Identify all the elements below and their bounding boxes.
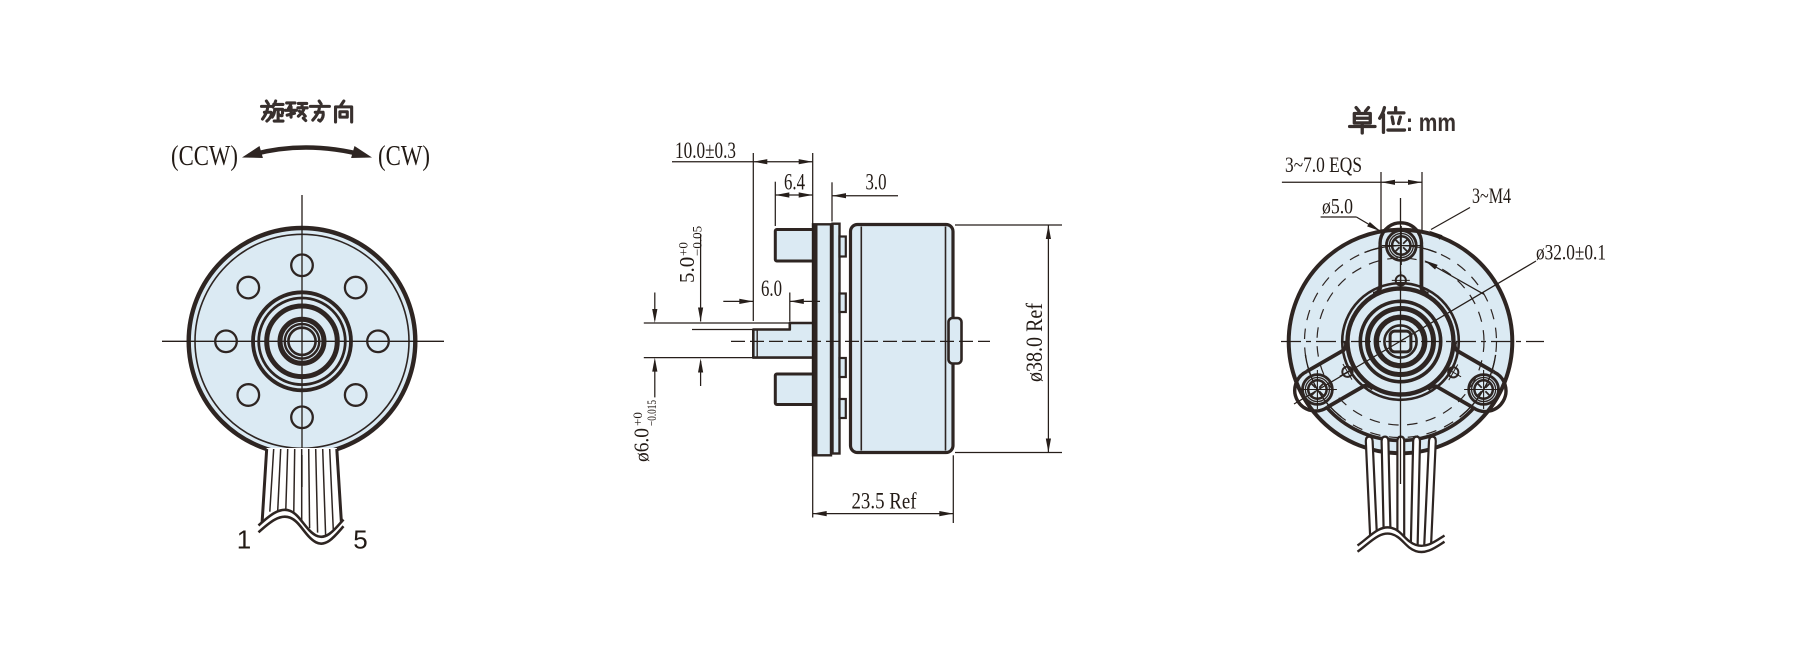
svg-text:6.4: 6.4 — [784, 170, 805, 195]
body front cap line — [860, 227, 862, 451]
washer at 330 deg — [1469, 375, 1499, 405]
side view horizontal centerline — [731, 340, 990, 342]
8 rivet holes — [367, 331, 389, 353]
washer at 210 deg — [1303, 375, 1333, 405]
hub rings — [1342, 283, 1459, 400]
svg-text:3~M4: 3~M4 — [1472, 183, 1511, 208]
svg-text:+0: +0 — [630, 412, 645, 426]
rear boss bump — [949, 318, 962, 364]
side view: top mounting post — [775, 230, 814, 262]
shaft tip chamfer line — [756, 331, 758, 357]
mounting bracket: 3 arms with keyhole lobes — [1373, 223, 1429, 294]
bolt circle ø32 dashed — [1305, 246, 1497, 438]
ø32 leader diagonal line — [1294, 261, 1536, 404]
bottom connecting arc of bracket — [1327, 408, 1474, 441]
svg-text:10.0±0.3: 10.0±0.3 — [675, 138, 736, 163]
svg-text:ø38.0 Ref: ø38.0 Ref — [1022, 303, 1047, 382]
svg-text:1: 1 — [237, 525, 251, 555]
wire break wave (front view) — [259, 510, 344, 560]
svg-text:3.0: 3.0 — [866, 170, 887, 195]
wire bundle (front view) — [262, 448, 342, 527]
wire break wave (rear view) — [1356, 527, 1445, 575]
center shaft rounded square — [1390, 331, 1411, 352]
svg-text:5.0: 5.0 — [675, 257, 699, 283]
dim 3.0 — [831, 182, 833, 221]
svg-text:−0.05: −0.05 — [690, 226, 705, 256]
dim 6.0 (flat length) — [789, 293, 791, 322]
inner step dashed circle — [1317, 258, 1484, 425]
side view: rear plate — [833, 224, 840, 454]
side view: shaft with flat — [753, 323, 814, 358]
side view: main body — [851, 225, 954, 453]
wire bundle (rear view) — [1366, 436, 1378, 545]
svg-text:−0.015: −0.015 — [644, 400, 659, 426]
body rear cap line — [945, 227, 947, 451]
svg-text:(CW): (CW) — [378, 141, 430, 172]
front view centerline vertical — [301, 195, 303, 487]
washer at 90 deg — [1386, 231, 1416, 261]
svg-text:: mm: : mm — [1406, 109, 1456, 137]
centerline continuation through bundle — [301, 455, 303, 487]
svg-text:6.0: 6.0 — [761, 276, 782, 301]
dim ø6.0 +0/-0.015 (vertical) — [654, 293, 656, 320]
rear view centerline horizontal dash-dot — [1281, 341, 1544, 343]
svg-text:23.5 Ref: 23.5 Ref — [852, 489, 917, 514]
title text 单位: mm (unit: mm) — [1350, 108, 1375, 133]
rear view outer case circle — [1289, 230, 1513, 454]
ø32 leader arrow — [1427, 262, 1484, 294]
svg-text:ø32.0±0.1: ø32.0±0.1 — [1536, 240, 1606, 265]
dim 6.4 — [774, 182, 776, 226]
front hub concentric rings — [253, 292, 351, 390]
front view inner rim circle — [195, 234, 409, 448]
dim 3~7.0 EQS — [1380, 172, 1382, 230]
svg-text:+0: +0 — [676, 242, 691, 256]
side view: bottom mounting post — [775, 374, 814, 405]
terminal tabs on rear plate — [840, 237, 846, 257]
dim 23.5 Ref — [952, 455, 954, 523]
dim 10.0±0.3 — [752, 153, 754, 321]
svg-text:3~7.0 EQS: 3~7.0 EQS — [1285, 152, 1362, 177]
front view outer case circle — [189, 228, 416, 455]
dim 5.0 and ø6.0 extension lines — [644, 322, 790, 324]
side view: front flange plate — [813, 224, 831, 455]
svg-text:ø6.0: ø6.0 — [630, 428, 654, 462]
dim 5.0 +0/-0.05 (vertical) — [700, 235, 702, 322]
svg-text:5: 5 — [353, 525, 367, 555]
front view centerline horizontal — [162, 340, 444, 342]
svg-text:ø5.0: ø5.0 — [1322, 194, 1353, 219]
rotation direction curved double arrow — [249, 148, 365, 156]
svg-text:(CCW): (CCW) — [171, 141, 238, 172]
dim ø38.0 Ref — [955, 224, 1062, 226]
title text 旋转方向 (rotation direction) — [262, 101, 284, 121]
rear view centerline vertical — [1400, 198, 1402, 484]
